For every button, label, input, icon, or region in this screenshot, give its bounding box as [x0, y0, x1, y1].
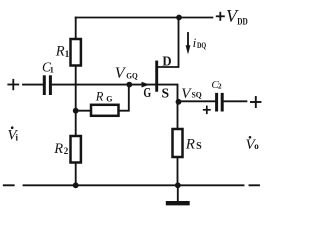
svg-text:DD: DD [237, 17, 248, 27]
wire source lead [158, 85, 178, 102]
wire C1 to gate [52, 84, 156, 86]
current arrow iDQ [186, 33, 191, 55]
terminal plus at C2 left [204, 106, 210, 113]
svg-text:1: 1 [50, 65, 54, 75]
wire source node down to RS [177, 102, 179, 129]
wire RG left lead [76, 110, 91, 112]
wire bottom bus [24, 184, 244, 186]
wire RS bottom lead [177, 157, 179, 185]
svg-text:R: R [95, 89, 104, 103]
svg-text:S: S [196, 141, 202, 152]
terminal plus output [251, 97, 261, 107]
svg-text:DQ: DQ [197, 40, 206, 50]
resistor RG [91, 105, 119, 116]
terminal plus input [8, 80, 18, 90]
svg-text:2: 2 [64, 146, 69, 156]
svg-text:R: R [185, 136, 195, 152]
svg-text:G: G [143, 85, 151, 100]
svg-text:G: G [106, 95, 112, 104]
label +VDD [216, 12, 225, 21]
transistor Q1 gate arrow [142, 82, 150, 88]
svg-text:R: R [55, 44, 65, 60]
svg-text:GQ: GQ [126, 71, 138, 81]
wire R2 bottom lead [75, 163, 77, 186]
wire R1 bottom to R2 top [75, 66, 77, 137]
ground [168, 185, 188, 203]
wire R1 top lead [75, 18, 77, 40]
svg-text:SQ: SQ [192, 90, 203, 100]
node RG tap on divider [73, 108, 79, 114]
node ground junction [175, 182, 181, 188]
terminal minus input [4, 184, 14, 186]
node drain-VDD junction [176, 15, 182, 21]
resistor R2 [71, 136, 81, 163]
resistor RS [173, 129, 183, 157]
wire input to C1 [23, 84, 43, 86]
wire RG right lead up to gate node [119, 85, 129, 111]
node VSQ source junction [176, 99, 182, 105]
node VGQ gate junction [126, 82, 132, 88]
svg-text:2: 2 [218, 82, 222, 91]
svg-text:S: S [162, 85, 170, 100]
wire drain lead [158, 18, 179, 68]
node R2 bottom junction [73, 182, 79, 188]
transistor Q1 channel bar [155, 62, 158, 90]
wire source node to C2 [179, 100, 216, 102]
svg-text:o: o [254, 141, 259, 151]
svg-text:R: R [53, 141, 63, 157]
terminal minus output [250, 184, 260, 186]
capacitor C2 [217, 94, 223, 110]
label Vi dot [11, 126, 14, 129]
wire C2 to output [224, 100, 247, 102]
svg-text:D: D [162, 54, 171, 69]
resistor R1 [71, 39, 81, 66]
wire top bus [76, 17, 213, 19]
label Vo dot [249, 136, 252, 139]
svg-text:1: 1 [65, 49, 70, 59]
capacitor C1 [44, 77, 50, 94]
svg-text:i: i [193, 35, 197, 50]
